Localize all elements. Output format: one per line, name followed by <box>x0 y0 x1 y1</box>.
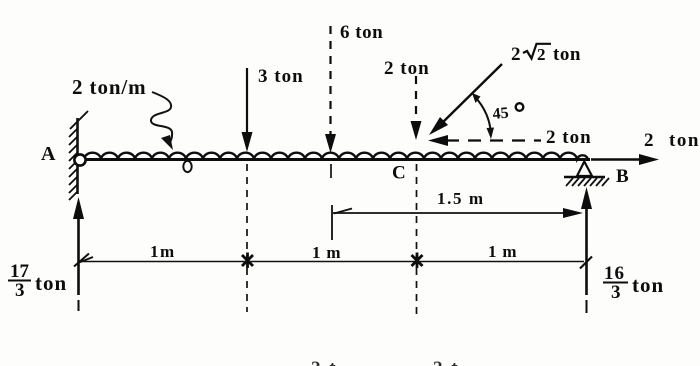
force 2 ton dashed horizontal arrow (leftward) <box>446 139 541 141</box>
small loop below beam <box>183 161 191 172</box>
construction dashed line below 3 ton point <box>246 164 248 312</box>
ground hatching at B <box>566 178 609 186</box>
dimension line (bottom) <box>80 261 584 263</box>
reaction arrow at B (16/3 ton up) <box>585 202 588 295</box>
fixed support wall at A <box>76 118 79 194</box>
svg-text:3: 3 <box>611 282 621 303</box>
svg-text:2 ton: 2 ton <box>546 127 592 148</box>
svg-text:2: 2 <box>511 44 521 65</box>
svg-text:2 t: 2 t <box>311 358 338 366</box>
beam line <box>76 158 590 161</box>
force 2 ton arrow at B (rightward) <box>591 158 642 160</box>
svg-text:2 ton: 2 ton <box>384 58 430 79</box>
svg-text:2: 2 <box>644 130 654 151</box>
svg-text:ton: ton <box>632 273 664 297</box>
1.5m dimension extension line <box>331 205 333 240</box>
wall hatching <box>69 111 88 200</box>
svg-text:1 m: 1 m <box>488 242 517 261</box>
force 3 ton arrow <box>246 68 248 137</box>
svg-text:1m: 1m <box>150 242 176 261</box>
svg-text:45: 45 <box>492 105 509 123</box>
svg-text:2 t: 2 t <box>433 358 460 366</box>
1.5m left tick arrow <box>334 209 352 214</box>
asterisk mark at 1m <box>242 253 253 269</box>
svg-text:6 ton: 6 ton <box>340 22 383 43</box>
force 2sqrt2 ton diagonal arrow (45 deg) <box>441 64 502 124</box>
svg-text:2: 2 <box>537 45 546 64</box>
svg-text:3 ton: 3 ton <box>258 66 304 87</box>
svg-text:ton: ton <box>35 271 67 295</box>
leader squiggle arrow from 2 ton/m to beam <box>151 92 172 144</box>
45 degree arc <box>475 97 492 137</box>
svg-text:ton: ton <box>669 130 700 151</box>
reaction arrow at A (17/3 ton up) <box>77 212 80 295</box>
left dimension slash tick <box>74 254 93 267</box>
ground line at B <box>564 176 605 178</box>
svg-text:1 m: 1 m <box>312 243 341 262</box>
short dash below 6 ton point <box>330 164 332 178</box>
distributed load scallops (2 ton/m) <box>84 153 588 159</box>
force 2 ton dashed arrow at C <box>415 76 417 126</box>
1.5m dimension line <box>333 212 566 214</box>
svg-text:3: 3 <box>15 280 25 301</box>
asterisk mark at 2m <box>412 253 423 269</box>
roller support triangle at B <box>577 162 592 177</box>
svg-text:1.5 m: 1.5 m <box>437 189 485 208</box>
right dimension slash tick <box>580 257 592 269</box>
svg-text:17: 17 <box>10 261 30 282</box>
svg-text:16: 16 <box>604 263 625 284</box>
force 6 ton dashed arrow <box>329 26 331 139</box>
1.5m right arrowhead <box>563 208 583 218</box>
svg-text:C: C <box>392 163 406 184</box>
svg-text:2 ton/m: 2 ton/m <box>72 75 147 99</box>
svg-text:B: B <box>616 166 629 187</box>
svg-text:ton: ton <box>553 44 581 65</box>
svg-text:A: A <box>41 143 56 165</box>
construction dashed line below C <box>416 164 418 316</box>
pin circle at A <box>74 154 85 165</box>
